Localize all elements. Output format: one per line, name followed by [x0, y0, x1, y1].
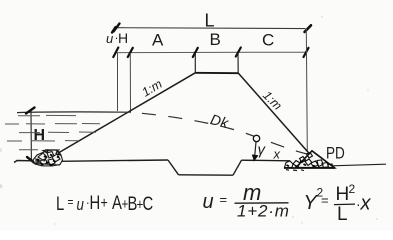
water texture dashes row1	[18, 114, 76, 116]
H dimension line	[30, 111, 32, 160]
svg-text:γ: γ	[258, 142, 267, 159]
dimension line A B C	[115, 51, 306, 53]
svg-text:x: x	[273, 147, 281, 162]
tick at x=306	[304, 48, 309, 57]
tick at x=238	[236, 48, 241, 57]
svg-text:L: L	[56, 193, 64, 214]
tick at x=130	[128, 48, 133, 57]
paper specks	[321, 16, 323, 18]
seepage curve Dk dashed	[131, 112, 307, 154]
H top arrowhead	[26, 108, 35, 114]
svg-text:H: H	[89, 192, 100, 213]
svg-text:=: =	[67, 195, 73, 209]
svg-text:=: =	[220, 192, 228, 207]
svg-text:B: B	[210, 30, 221, 49]
arrowhead right of L	[305, 25, 312, 32]
ground base line middle segment	[242, 159, 291, 162]
riprap toe outline	[33, 150, 63, 166]
arrowhead left of L	[112, 24, 120, 33]
svg-text:C: C	[262, 31, 274, 50]
label PD	[326, 144, 345, 163]
ground base line left segment	[14, 160, 168, 163]
svg-text:Dk: Dk	[209, 112, 231, 132]
svg-text:1+2·m: 1+2·m	[237, 202, 290, 221]
svg-text:PD: PD	[326, 144, 345, 163]
gamma arrow line	[255, 142, 256, 158]
cutoff trench right slope	[233, 160, 242, 175]
svg-text:2: 2	[349, 182, 356, 196]
ground base line right segment	[332, 164, 386, 166]
dimension line L	[117, 27, 306, 30]
pebbles under drain edge	[286, 170, 304, 171]
toe drain triangle PD	[296, 151, 335, 168]
svg-text:H: H	[336, 184, 350, 205]
svg-text:A: A	[152, 31, 164, 50]
toe drain dark pebbles	[287, 161, 316, 167]
svg-text:1:m: 1:m	[260, 88, 285, 113]
cutoff trench bottom	[179, 174, 234, 176]
svg-text:H: H	[118, 30, 128, 46]
svg-text:=: =	[321, 193, 329, 208]
tick at x=195	[193, 48, 198, 57]
water texture dashes row2	[5, 123, 100, 126]
svg-text:u: u	[106, 31, 113, 46]
dam left slope 1:m	[54, 73, 195, 156]
tick at x=115	[113, 48, 118, 58]
H bottom arrowhead	[27, 157, 34, 163]
riprap dark pebbles	[37, 155, 59, 166]
svg-text:C: C	[143, 193, 154, 214]
svg-text:1:m: 1:m	[139, 77, 164, 100]
edge smudge left	[0, 184, 3, 189]
toe drain bottom edge	[284, 167, 335, 169]
svg-text:H: H	[34, 127, 46, 144]
extension line right x=306.5	[306, 29, 307, 152]
svg-text:L: L	[337, 204, 348, 225]
water surface line	[17, 111, 131, 114]
formula 1: L = u*H + A+B+C	[56, 192, 153, 214]
svg-text:u: u	[203, 191, 214, 213]
svg-text:+: +	[100, 195, 107, 213]
svg-text:x: x	[360, 193, 372, 215]
riprap stones	[36, 150, 60, 165]
point circle on seepage line	[253, 135, 259, 141]
cutoff trench left slope	[168, 160, 179, 175]
dam right slope 1:m	[238, 73, 311, 156]
extension line left x=117	[117, 53, 119, 111]
gamma arrowhead	[253, 155, 258, 160]
crest bottom edge	[195, 72, 238, 74]
svg-text:u: u	[77, 196, 85, 215]
crest right vertical	[237, 54, 239, 73]
water texture dashes row4	[7, 140, 79, 142]
toe drain stones	[285, 153, 333, 168]
extension line x=130	[129, 53, 131, 112]
water texture dashes row5	[19, 149, 60, 151]
water texture dashes row3	[19, 131, 96, 134]
svg-text:L: L	[205, 11, 215, 31]
crest left vertical	[194, 54, 196, 73]
riprap shading	[35, 161, 60, 165]
